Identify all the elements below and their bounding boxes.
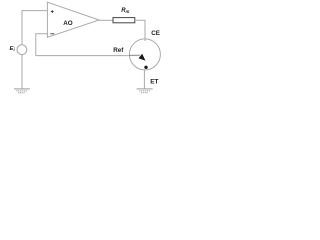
source Ei bbox=[17, 45, 27, 55]
op-amp AO bbox=[47, 2, 99, 37]
svg-text:Rm: Rm bbox=[121, 8, 129, 14]
wire non-inverting input from Ei to op-amp bbox=[22, 11, 47, 45]
resistor Rm bbox=[113, 18, 135, 23]
wire ET to ground bbox=[143, 70, 145, 89]
wire inverting input stub bbox=[36, 34, 48, 56]
reference electrode arrow inside cell bbox=[129, 54, 140, 56]
minus input mark bbox=[50, 33, 54, 35]
svg-text:AO: AO bbox=[63, 20, 73, 27]
plus input mark bbox=[51, 10, 54, 13]
svg-text:Ref: Ref bbox=[113, 47, 124, 54]
ground (left) bbox=[14, 89, 30, 93]
electrochemical cell bbox=[129, 39, 160, 70]
svg-text:Ei: Ei bbox=[10, 46, 16, 52]
working electrode dot bbox=[144, 66, 147, 69]
svg-text:CE: CE bbox=[151, 30, 160, 37]
wire op-amp output bbox=[99, 19, 113, 21]
ground (right) bbox=[137, 89, 153, 93]
svg-text:ET: ET bbox=[150, 78, 158, 85]
wire Ei to ground bbox=[21, 55, 23, 89]
wire feedback Ref bbox=[36, 55, 129, 57]
wire resistor to CE bbox=[135, 20, 145, 41]
